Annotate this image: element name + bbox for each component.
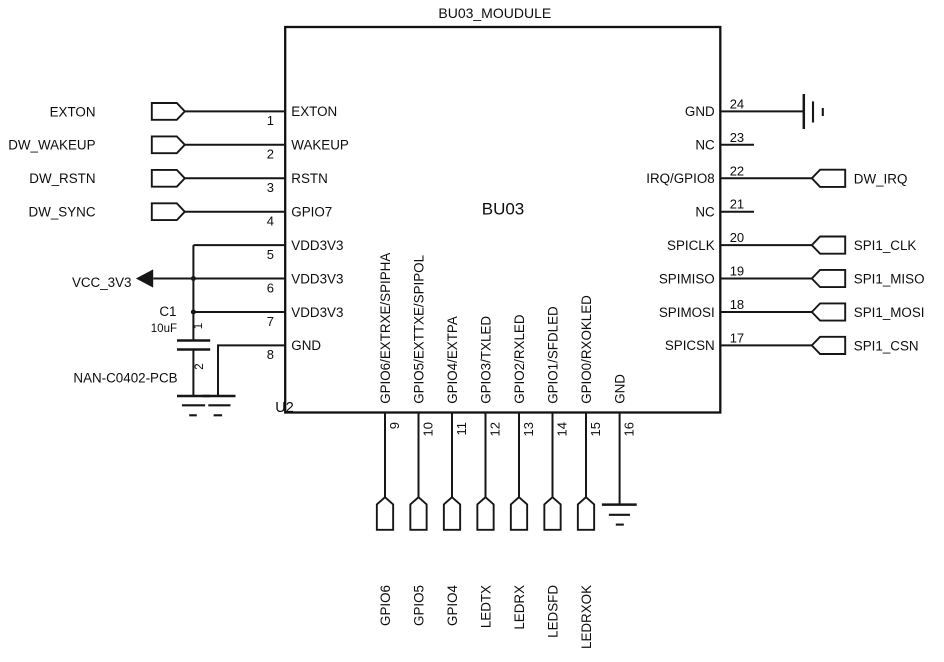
port flag GPIO5 [410, 497, 426, 530]
svg-text:24: 24 [730, 96, 744, 111]
svg-text:SPI1_CSN: SPI1_CSN [854, 338, 919, 353]
svg-text:1: 1 [267, 113, 274, 128]
wire pin 24 GND [720, 110, 804, 112]
port flag LEDSFD [544, 497, 560, 530]
wire pin 2 [185, 144, 285, 146]
svg-text:DW_IRQ: DW_IRQ [854, 171, 908, 186]
wire pin 20 [720, 244, 812, 246]
wire VCC_3V3 to bus [153, 278, 193, 280]
wire pin 16 GND [619, 413, 621, 505]
svg-text:23: 23 [730, 130, 744, 145]
svg-text:VDD3V3: VDD3V3 [291, 305, 343, 320]
wire pin 9 [384, 413, 386, 498]
svg-text:WAKEUP: WAKEUP [291, 138, 349, 153]
svg-text:EXTON: EXTON [291, 104, 337, 119]
wire pin 1 [185, 110, 285, 112]
svg-text:SPICLK: SPICLK [667, 238, 715, 253]
ground symbol (pin 16) [602, 505, 637, 525]
svg-text:SPI1_CLK: SPI1_CLK [854, 238, 917, 253]
svg-text:NC: NC [695, 205, 715, 220]
svg-text:8: 8 [267, 347, 274, 362]
wire pin 5 [193, 244, 285, 246]
svg-text:7: 7 [267, 314, 274, 329]
svg-text:GPIO1/SFDLED: GPIO1/SFDLED [545, 306, 560, 404]
port flag DW_SYNC [152, 203, 185, 220]
port flag EXTON [152, 103, 185, 120]
svg-text:GPIO0/RXOKLED: GPIO0/RXOKLED [579, 295, 594, 404]
svg-text:RSTN: RSTN [291, 171, 327, 186]
wire pin 3 [185, 177, 285, 179]
svg-text:C1: C1 [159, 304, 176, 319]
svg-text:IRQ/GPIO8: IRQ/GPIO8 [646, 171, 714, 186]
port flag DW_RSTN [152, 170, 185, 187]
svg-text:19: 19 [730, 264, 744, 279]
svg-text:BU03_MOUDULE: BU03_MOUDULE [438, 5, 551, 21]
svg-text:16: 16 [621, 422, 636, 436]
svg-text:GPIO5: GPIO5 [411, 585, 426, 626]
svg-text:2: 2 [194, 363, 206, 369]
wire pin 23 NC stub [720, 144, 754, 146]
wire pin 18 [720, 311, 812, 313]
svg-text:21: 21 [730, 197, 744, 212]
svg-text:LEDTX: LEDTX [478, 585, 493, 628]
ground symbol (C1) [177, 396, 210, 415]
svg-text:20: 20 [730, 230, 744, 245]
svg-text:9: 9 [387, 422, 402, 429]
svg-text:GND: GND [685, 104, 715, 119]
svg-text:GPIO6/EXTRXE/SPIPHA: GPIO6/EXTRXE/SPIPHA [378, 253, 393, 404]
port flag LEDTX [477, 497, 493, 530]
svg-text:GPIO2/RXLED: GPIO2/RXLED [512, 314, 527, 404]
svg-text:VDD3V3: VDD3V3 [291, 238, 343, 253]
svg-text:6: 6 [267, 280, 274, 295]
svg-text:BU03: BU03 [482, 200, 525, 219]
svg-text:NC: NC [695, 138, 715, 153]
svg-text:GPIO6: GPIO6 [378, 585, 393, 626]
wire pin 4 [185, 211, 285, 213]
svg-text:4: 4 [267, 214, 274, 229]
port flag GPIO6 [377, 497, 393, 530]
svg-text:SPI1_MISO: SPI1_MISO [854, 272, 925, 287]
wire pin 17 [720, 344, 812, 346]
wire VDD vertical bus [192, 245, 194, 340]
svg-text:GPIO5/EXTTXE/SPIPOL: GPIO5/EXTTXE/SPIPOL [411, 255, 426, 404]
svg-text:EXTON: EXTON [50, 104, 96, 119]
capacitor C1 bottom plate [177, 348, 210, 351]
wire pin 6 [193, 278, 285, 280]
port flag DW_WAKEUP [152, 136, 185, 153]
svg-text:13: 13 [521, 422, 536, 436]
svg-text:GPIO3/TXLED: GPIO3/TXLED [478, 316, 493, 404]
svg-text:SPI1_MOSI: SPI1_MOSI [854, 305, 925, 320]
svg-text:U2: U2 [275, 400, 294, 416]
wire pin 19 [720, 278, 812, 280]
port flag SPI1_CSN [812, 337, 845, 354]
wire pin 11 [451, 413, 453, 498]
svg-text:15: 15 [588, 422, 603, 436]
port flag DW_IRQ [812, 170, 845, 187]
svg-text:5: 5 [267, 247, 274, 262]
svg-text:LEDSFD: LEDSFD [545, 585, 560, 638]
ground symbol (pin 24, rotated) [804, 94, 823, 129]
wire pin 21 NC stub [720, 211, 754, 213]
port flag SPI1_CLK [812, 237, 845, 254]
junction at pin 7 wire [191, 310, 196, 315]
svg-text:10: 10 [420, 422, 435, 436]
port flag LEDRXOK [578, 497, 594, 530]
svg-text:14: 14 [554, 422, 569, 436]
ground symbol (pin 8) [203, 396, 236, 415]
wire pin 10 [418, 413, 420, 498]
svg-text:11: 11 [454, 422, 469, 436]
svg-text:VCC_3V3: VCC_3V3 [72, 275, 132, 290]
svg-text:18: 18 [730, 297, 744, 312]
IC U2 BU03 module body [285, 27, 720, 413]
svg-text:GND: GND [612, 374, 627, 404]
svg-text:GPIO4: GPIO4 [445, 584, 460, 625]
capacitor C1 top plate [177, 339, 210, 342]
svg-text:DW_RSTN: DW_RSTN [29, 171, 95, 186]
svg-text:LEDRX: LEDRX [512, 585, 527, 630]
port flag GPIO4 [444, 497, 460, 530]
svg-text:NAN-C0402-PCB: NAN-C0402-PCB [73, 370, 177, 385]
svg-text:2: 2 [267, 147, 274, 162]
svg-text:GND: GND [291, 338, 321, 353]
wire pin 14 [552, 413, 554, 498]
wire pin 13 [518, 413, 520, 498]
svg-text:VDD3V3: VDD3V3 [291, 271, 343, 286]
svg-text:1: 1 [193, 323, 205, 329]
svg-text:17: 17 [730, 330, 744, 345]
svg-text:22: 22 [730, 163, 744, 178]
junction at pin 6 wire [191, 276, 196, 281]
svg-text:3: 3 [267, 180, 274, 195]
svg-text:SPIMOSI: SPIMOSI [659, 305, 715, 320]
port flag SPI1_MOSI [812, 303, 845, 320]
svg-text:10uF: 10uF [151, 323, 177, 335]
power port VCC_3V3 arrow [136, 269, 153, 287]
wire pin 12 [485, 413, 487, 498]
svg-text:GPIO7: GPIO7 [291, 205, 332, 220]
svg-text:DW_WAKEUP: DW_WAKEUP [8, 138, 95, 153]
wire pin 7 [193, 311, 285, 313]
svg-text:DW_SYNC: DW_SYNC [29, 205, 96, 220]
svg-text:SPIMISO: SPIMISO [659, 271, 715, 286]
port flag LEDRX [511, 497, 527, 530]
svg-text:LEDRXOK: LEDRXOK [579, 585, 594, 649]
wire pin 15 [585, 413, 587, 498]
wire pin 8 GND [218, 345, 285, 396]
wire pin 22 [720, 177, 812, 179]
svg-text:SPICSN: SPICSN [665, 338, 715, 353]
svg-text:12: 12 [487, 422, 502, 436]
svg-text:GPIO4/EXTPA: GPIO4/EXTPA [445, 316, 460, 404]
wire C1 bottom to ground [192, 350, 194, 397]
port flag SPI1_MISO [812, 270, 845, 287]
